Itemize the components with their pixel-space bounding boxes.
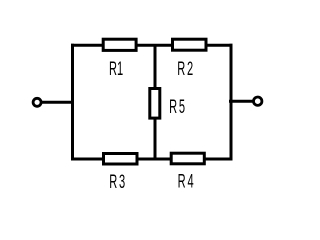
svg-text:R2: R2: [177, 59, 193, 80]
resistor R3: [104, 154, 138, 165]
resistor R2: [173, 39, 207, 50]
resistor R1: [103, 39, 136, 50]
resistor R4: [171, 153, 204, 164]
wire: left terminal lead: [38, 101, 74, 104]
left terminal: [33, 98, 41, 106]
right terminal: [254, 97, 262, 105]
resistor R5: [150, 89, 160, 119]
wire: top horizontal net: [71, 44, 233, 47]
wire: bottom horizontal net: [71, 158, 233, 161]
wire: right vertical branch: [230, 44, 233, 161]
svg-text:R1: R1: [109, 59, 123, 80]
wire: middle vertical branch: [154, 45, 157, 159]
wire: left vertical branch: [71, 44, 74, 161]
wire: right terminal lead: [229, 100, 256, 103]
